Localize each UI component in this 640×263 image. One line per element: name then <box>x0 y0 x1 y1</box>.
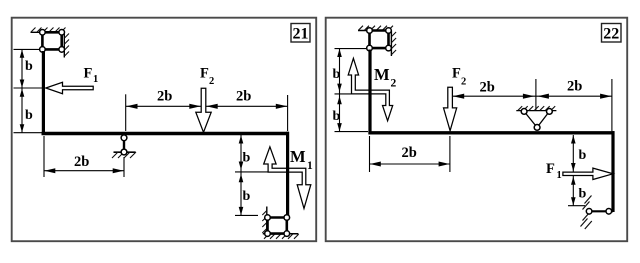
extension line at triangle support (panel 22 top dim) <box>535 79 537 110</box>
problem number box 22 <box>602 24 622 43</box>
svg-text:2b: 2b <box>402 145 417 161</box>
label F2 (panel 22) <box>452 66 466 88</box>
svg-text:b: b <box>25 108 33 123</box>
beam horizontal span (panel 21) <box>42 132 290 135</box>
dimension line 2b bottom (panel 22) <box>370 162 450 167</box>
dimension line b-b left (panel 22) <box>337 49 342 132</box>
dimension line b-b right (panel 22) <box>571 135 576 206</box>
extension line below beam corner (panel 21 bottom 2b) <box>43 136 45 177</box>
svg-text:21: 21 <box>293 25 309 42</box>
moment couple M2 (up arrow, crossbar, down arrow) <box>348 58 393 121</box>
force F1 arrow (panel 21) <box>46 82 93 93</box>
svg-text:b: b <box>333 109 341 124</box>
extension line above beam at 2b left end (panel 21 top dim) <box>125 94 127 131</box>
extension line below F2 (panel 22) <box>449 136 451 172</box>
svg-text:F: F <box>546 161 555 177</box>
pendulum link support under beam (panel 21) <box>112 135 136 158</box>
beam left vertical column (panel 22) <box>368 50 371 135</box>
label M1 <box>290 147 313 172</box>
svg-text:2b: 2b <box>480 80 495 96</box>
svg-text:1: 1 <box>307 160 313 172</box>
svg-text:F: F <box>452 66 461 82</box>
svg-text:b: b <box>25 59 33 74</box>
svg-text:2b: 2b <box>236 89 251 105</box>
svg-text:b: b <box>243 189 251 204</box>
svg-text:M: M <box>374 65 390 84</box>
svg-text:1: 1 <box>557 170 562 181</box>
force F2 arrow (panel 22) <box>444 87 457 130</box>
svg-text:2b: 2b <box>74 154 89 170</box>
svg-text:F: F <box>200 66 209 82</box>
beam horizontal span (panel 22) <box>368 131 614 134</box>
force F2 arrow (panel 21) <box>196 88 211 132</box>
support S4 triangle pinned from ceiling (panel 22) <box>516 106 556 130</box>
extension line below beam corner (panel 22 bottom 2b) <box>369 136 371 172</box>
moment couple M1 (up arrow, crossbar, down arrow) <box>264 147 311 209</box>
svg-text:2: 2 <box>209 76 214 87</box>
label F2 (panel 21) <box>200 66 214 88</box>
svg-text:F: F <box>84 66 93 82</box>
svg-text:M: M <box>290 147 306 166</box>
problem number box 21 <box>291 24 310 43</box>
support S3 top-left (double-link to ceiling and wall, panel 22) <box>358 26 396 56</box>
beam right vertical column (panel 21) <box>286 132 289 216</box>
extension line at M1 crossbar level <box>235 171 268 173</box>
force F1 arrow (panel 22) <box>563 168 613 179</box>
svg-text:2b: 2b <box>157 89 172 105</box>
svg-text:2: 2 <box>461 76 466 87</box>
extension line below pendulum support <box>123 157 125 177</box>
support S1 top-left (double-link to ceiling and wall) <box>31 28 70 58</box>
dimension line 2b-2b top (panel 22) <box>452 94 612 99</box>
extension line at F1 level <box>14 87 43 89</box>
panel 21 frame <box>12 18 317 242</box>
beam left vertical column (panel 21) <box>42 51 45 135</box>
svg-text:1: 1 <box>93 74 98 85</box>
support S5 bottom-right (pinned link to wall, panel 22) <box>581 196 614 230</box>
svg-text:b: b <box>333 67 341 82</box>
extension line at bottom support level (panel 21) <box>235 214 258 216</box>
svg-text:2b: 2b <box>567 78 582 94</box>
dimension line 2b bottom (panel 21) <box>44 168 124 173</box>
svg-text:b: b <box>243 151 251 166</box>
dimension line b-b right (panel 21) <box>239 135 244 215</box>
label F1 (panel 22) <box>546 161 562 181</box>
extension line at M2 crossbar level <box>335 93 352 95</box>
svg-text:22: 22 <box>603 25 619 42</box>
extension line at bottom support level (panel 22) <box>568 205 585 207</box>
support S2 bottom-right (double-link to ground and wall, panel 21) <box>262 207 298 239</box>
extension line at support level <box>14 48 41 50</box>
label M2 <box>374 65 397 90</box>
extension line above beam right end (panel 22 top dim) <box>611 79 613 131</box>
panel 22 frame <box>326 18 628 242</box>
extension line at beam level (panel 22 left) <box>335 131 369 133</box>
beam right vertical column (panel 22) <box>611 131 614 212</box>
dimension line b-b left (panel 21) <box>20 49 25 132</box>
extension line at beam level (left) <box>14 132 42 134</box>
extension line above beam right end (panel 21 top dim) <box>287 95 289 131</box>
label F1 (panel 21) <box>84 66 99 86</box>
extension line at support level (panel 22) <box>335 48 368 50</box>
svg-text:b: b <box>579 148 587 163</box>
svg-text:b: b <box>579 187 587 202</box>
dimension line 2b-2b top (panel 21) <box>126 104 288 109</box>
svg-text:2: 2 <box>391 78 397 90</box>
